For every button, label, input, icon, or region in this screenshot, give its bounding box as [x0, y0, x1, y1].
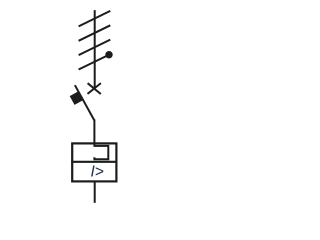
- switch blade Q1 (open): [75, 85, 95, 120]
- svg-text:I>: I>: [91, 163, 104, 180]
- fuse body F1 (filled square on blade): [70, 91, 83, 104]
- wire: incoming vertical feeder: [94, 10, 96, 89]
- busbar tick 3: [79, 40, 111, 56]
- busbar tick 2: [79, 25, 111, 41]
- busbar tick 1 (top diagonal): [79, 11, 111, 27]
- node A (filled junction dot): [105, 51, 112, 58]
- wire: outgoing bottom feeder: [94, 181, 96, 202]
- trip unit divider: [71, 161, 117, 163]
- wire: blade to trip-unit box: [93, 120, 95, 147]
- breaker contact X stroke 2: [88, 83, 101, 94]
- busbar tick 4 (ends at node dot): [79, 56, 107, 69]
- breaker contact X stroke 1: [88, 83, 101, 94]
- trip unit box U1 (outer rectangle): [72, 143, 116, 181]
- thermal element hook (conductor loop): [94, 146, 108, 159]
